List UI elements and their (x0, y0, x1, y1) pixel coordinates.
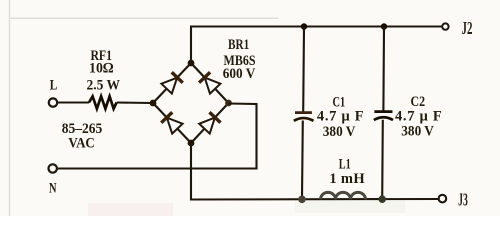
scan edge line (9, 0, 11, 216)
wire bridge bottom to bottom rail and J3 (191, 143, 439, 200)
svg-text:600 V: 600 V (223, 66, 256, 82)
wire bridge top to top rail and J2 (191, 27, 442, 64)
svg-text:4.7 µ F: 4.7 µ F (317, 109, 364, 125)
diode bottom-right (199, 112, 221, 134)
svg-text:10Ω: 10Ω (89, 61, 114, 77)
terminal L (49, 98, 57, 106)
capacitor C2 (382, 27, 385, 111)
bridge BR1 diamond (153, 63, 229, 143)
svg-text:L: L (50, 77, 58, 93)
node top rail C1 branch (301, 23, 307, 29)
svg-text:N: N (49, 181, 57, 197)
resistor RF1 (89, 96, 117, 108)
svg-text:4.7 µ F: 4.7 µ F (395, 108, 442, 124)
svg-text:1 mH: 1 mH (329, 171, 365, 187)
svg-text:J2: J2 (462, 18, 473, 38)
diode top-right (199, 72, 221, 94)
wire N to bridge right vertex (57, 104, 257, 169)
diode bottom-left (161, 112, 183, 134)
node bridge bottom (188, 140, 195, 147)
wire resistor to bridge (117, 101, 151, 104)
node top rail C2 branch (381, 23, 387, 29)
terminal J2 (442, 23, 448, 29)
svg-text:VAC: VAC (68, 136, 94, 152)
svg-text:J3: J3 (458, 190, 468, 210)
svg-text:380 V: 380 V (323, 124, 356, 140)
wire L to resistor (57, 101, 89, 103)
node bridge top (188, 60, 195, 67)
svg-text:BR1: BR1 (228, 37, 249, 53)
terminal N (49, 164, 57, 172)
node bottom rail C1 branch (298, 196, 306, 204)
svg-text:2.5 W: 2.5 W (87, 77, 121, 93)
svg-text:380 V: 380 V (401, 124, 434, 140)
terminal J3 (439, 195, 447, 203)
node bottom rail C2 branch (378, 195, 386, 203)
diode top-left (161, 72, 183, 94)
inductor L1 (321, 192, 366, 199)
capacitor C1 (302, 27, 305, 112)
faint scan crease line (10, 17, 278, 19)
node bridge left (150, 100, 157, 107)
node bridge right (225, 100, 232, 107)
